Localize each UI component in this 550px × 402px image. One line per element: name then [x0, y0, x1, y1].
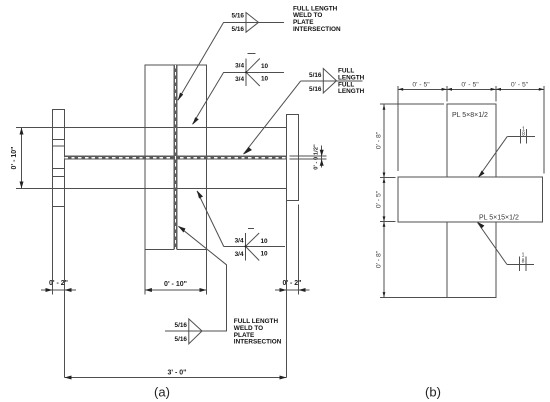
- svg-text:LENGTH: LENGTH: [338, 88, 365, 95]
- ARROWHEADS: [20, 71, 545, 379]
- svg-text:INTERSECTION: INTERSECTION: [234, 339, 282, 346]
- vertical plate bottom part (view b): [447, 222, 496, 297]
- dim 0'-2" left: extension lines: [52, 207, 54, 295]
- svg-text:10: 10: [261, 63, 269, 70]
- weld symbol 4 leader: [197, 191, 224, 246]
- svg-text:5/16: 5/16: [309, 72, 322, 79]
- svg-text:(b): (b): [425, 385, 441, 400]
- svg-text:3/4: 3/4: [235, 251, 244, 258]
- horizontal plate (view b): [398, 177, 543, 222]
- hidden plate band extension past right end plate (for 1/2 dim): [290, 155, 327, 157]
- svg-text:0' - 8": 0' - 8": [376, 131, 383, 149]
- svg-text:5/16: 5/16: [232, 26, 245, 33]
- svg-text:(a): (a): [154, 385, 170, 400]
- left end plate tick 2: [53, 145, 65, 147]
- dim 3'-0": dimension line: [65, 377, 287, 379]
- vertical plate bottom edge right part: [177, 248, 207, 250]
- arrows dim 0-0 1/2 (pointing inward vertically): [320, 150, 324, 157]
- weld symbol 2 bevel lower: [246, 72, 260, 86]
- dim 0'-2" left: dimension line: [41, 289, 76, 291]
- dim 0'-2" right: extension lines: [286, 201, 288, 378]
- dim 0'-10" bottom: extension lines: [144, 250, 146, 295]
- svg-text:10: 10: [261, 238, 269, 245]
- svg-text:10: 10: [261, 250, 269, 257]
- left dim ext line 2: [380, 177, 396, 179]
- svg-text:3/4: 3/4: [235, 63, 244, 70]
- svg-text:0' - 0 1/2": 0' - 0 1/2": [314, 144, 320, 170]
- weld symbol 2 bevel upper: [246, 59, 260, 73]
- weld symbol 2 center dot: [245, 71, 247, 73]
- svg-text:3/4: 3/4: [235, 237, 244, 244]
- weld symbol 2 reference line: [224, 71, 284, 73]
- weld symbol 5 leader diagonal: [179, 226, 227, 264]
- weld symbol 4 bevel lower: [246, 246, 260, 260]
- svg-text:5/16: 5/16: [175, 336, 188, 343]
- dim 0'-0 1/2" right: dimension line: [321, 146, 323, 168]
- arrow leader 5 tip: [178, 226, 186, 233]
- weld symbol b1 leader: [479, 136, 508, 177]
- left end plate tick 4: [53, 176, 65, 178]
- svg-text:0' - 5": 0' - 5": [511, 82, 529, 89]
- weld symbol 1 leader: [178, 22, 224, 100]
- arrows dim 0-2 right (outside): [280, 288, 287, 292]
- left end plate: [53, 110, 65, 207]
- arrow weld b2 tip: [478, 222, 485, 229]
- svg-text:0' - 5": 0' - 5": [376, 190, 383, 208]
- weld symbol 2 leader: [193, 72, 224, 124]
- weld symbol b1 groove strokes: [519, 129, 521, 144]
- svg-text:0' - 2": 0' - 2": [49, 280, 68, 287]
- arrow leader 2 tip: [193, 117, 199, 125]
- weld symbol 3 fillet triangles: [323, 69, 336, 94]
- right end plate: [287, 115, 299, 201]
- arrow dim 0-10 left top: [20, 128, 24, 135]
- left dim ext line 4: [380, 296, 447, 298]
- arrow leader 1 tip: [178, 93, 183, 101]
- hidden plate edge band (horizontal, gray with white dashes): [65, 156, 287, 160]
- weld symbol 1 reference line: [224, 21, 284, 23]
- left end plate tick 1: [53, 139, 65, 141]
- arrows left dim view b: [383, 105, 386, 110]
- weld symbol 5 leader vertical: [226, 265, 228, 332]
- top dim ext line 2: [446, 86, 448, 102]
- arrow dim 0-10 left bottom: [20, 182, 24, 189]
- svg-text:8: 8: [522, 259, 525, 265]
- svg-text:5/16: 5/16: [232, 13, 245, 20]
- top dim ext line 4: [543, 86, 545, 174]
- left dim ext line 3: [380, 221, 396, 223]
- left dim ext line 1: [380, 103, 444, 105]
- top dim ext line 1: [397, 86, 399, 171]
- top dim (view b): dimension line: [398, 88, 544, 90]
- weld symbol b2 groove strokes: [519, 257, 521, 272]
- weld symbol 3 reference line: [301, 80, 363, 82]
- svg-text:0' - 2": 0' - 2": [283, 280, 302, 287]
- weld symbol 4 contour dash: [248, 228, 254, 230]
- left end plate tick 3: [53, 168, 65, 170]
- vertical plate top part (view b): [447, 104, 496, 177]
- svg-text:0' - 10": 0' - 10": [164, 281, 187, 288]
- svg-text:PL 5×8×1/2: PL 5×8×1/2: [452, 112, 488, 119]
- svg-text:0' - 10": 0' - 10": [11, 147, 18, 170]
- weld symbol b1 reference line: [507, 135, 535, 137]
- arrow leader 3 tip: [244, 147, 253, 155]
- arrows dim 0-2 left (outside): [46, 288, 53, 292]
- svg-text:5/16: 5/16: [309, 86, 322, 93]
- weld symbol 1 fillet triangles: [246, 13, 259, 33]
- weld symbol b2 leader: [478, 223, 508, 265]
- hidden plate edge band (vertical, double line with dashed center): [174, 65, 178, 249]
- arrows dim 0-10 bottom (inside): [145, 288, 152, 292]
- svg-text:8: 8: [522, 132, 525, 138]
- arrow weld b1 tip: [478, 171, 485, 178]
- top dim ext line 3: [495, 86, 497, 102]
- vertical plate bottom edge left part: [145, 248, 174, 250]
- weld symbol 3 leader: [244, 81, 301, 154]
- svg-text:0' - 5": 0' - 5": [461, 82, 479, 89]
- svg-text:INTERSECTION: INTERSECTION: [293, 26, 341, 33]
- weld symbol 2 vertical: [245, 59, 247, 87]
- svg-text:10: 10: [261, 76, 269, 83]
- weld symbol 4 center dot: [245, 245, 247, 247]
- dim 0'-10" left vertical: dimension line: [21, 128, 23, 189]
- dim 0'-10" bottom: dimension line: [145, 289, 207, 291]
- vertical plate (view a) outline: [145, 65, 207, 249]
- svg-text:0' - 8": 0' - 8": [376, 250, 383, 268]
- arrow leader 4 tip: [197, 191, 203, 199]
- svg-text:3/4: 3/4: [235, 76, 244, 83]
- horizontal plate top edge (view a) with left dim extension: [16, 127, 287, 129]
- weld symbol 4 bevel upper: [246, 233, 260, 246]
- weld symbol 5 reference line: [165, 330, 227, 332]
- svg-text:5/16: 5/16: [175, 322, 188, 329]
- arrows dim 3-0: [65, 376, 72, 380]
- weld symbol 2 contour dash: [248, 52, 256, 54]
- left dim (view b): dimension line: [383, 104, 385, 297]
- svg-text:PL 5×15×1/2: PL 5×15×1/2: [479, 215, 519, 222]
- horizontal plate bottom edge (view a) with left dim extension: [16, 188, 287, 190]
- svg-text:3' - 0": 3' - 0": [168, 370, 187, 377]
- svg-text:0' - 5": 0' - 5": [412, 82, 430, 89]
- arrows top dim view b: [398, 88, 403, 91]
- dim 0'-2" right: dimension line: [275, 289, 310, 291]
- weld symbol 5 fillet triangles: [189, 319, 202, 344]
- weld symbol 4 reference line: [224, 245, 285, 247]
- weld symbol 4 vertical: [245, 233, 247, 261]
- weld symbol b2 reference line: [507, 264, 534, 266]
